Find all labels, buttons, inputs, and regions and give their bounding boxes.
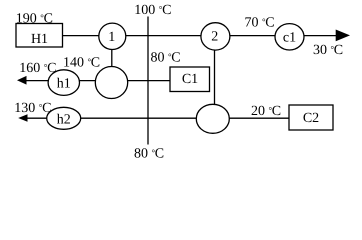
svg-text:80 °C: 80 °C [134, 147, 164, 161]
svg-text:190 °C: 190 °C [16, 11, 53, 26]
svg-text:h2: h2 [57, 113, 71, 128]
svg-text:100 °C: 100 °C [134, 3, 171, 18]
svg-text:160 °C: 160 °C [19, 61, 56, 76]
svg-text:C2: C2 [303, 111, 319, 126]
svg-text:2: 2 [211, 30, 218, 45]
svg-text:70 °C: 70 °C [245, 16, 275, 31]
svg-text:h1: h1 [57, 76, 71, 91]
svg-text:130 °C: 130 °C [14, 101, 51, 116]
svg-text:20 °C: 20 °C [251, 104, 281, 119]
svg-text:80 °C: 80 °C [151, 51, 181, 66]
svg-text:H1: H1 [31, 32, 48, 47]
svg-text:c1: c1 [283, 31, 296, 46]
svg-text:140 °C: 140 °C [63, 56, 100, 71]
svg-text:C1: C1 [182, 72, 198, 87]
svg-text:30 °C: 30 °C [313, 43, 343, 58]
svg-text:1: 1 [108, 30, 115, 45]
